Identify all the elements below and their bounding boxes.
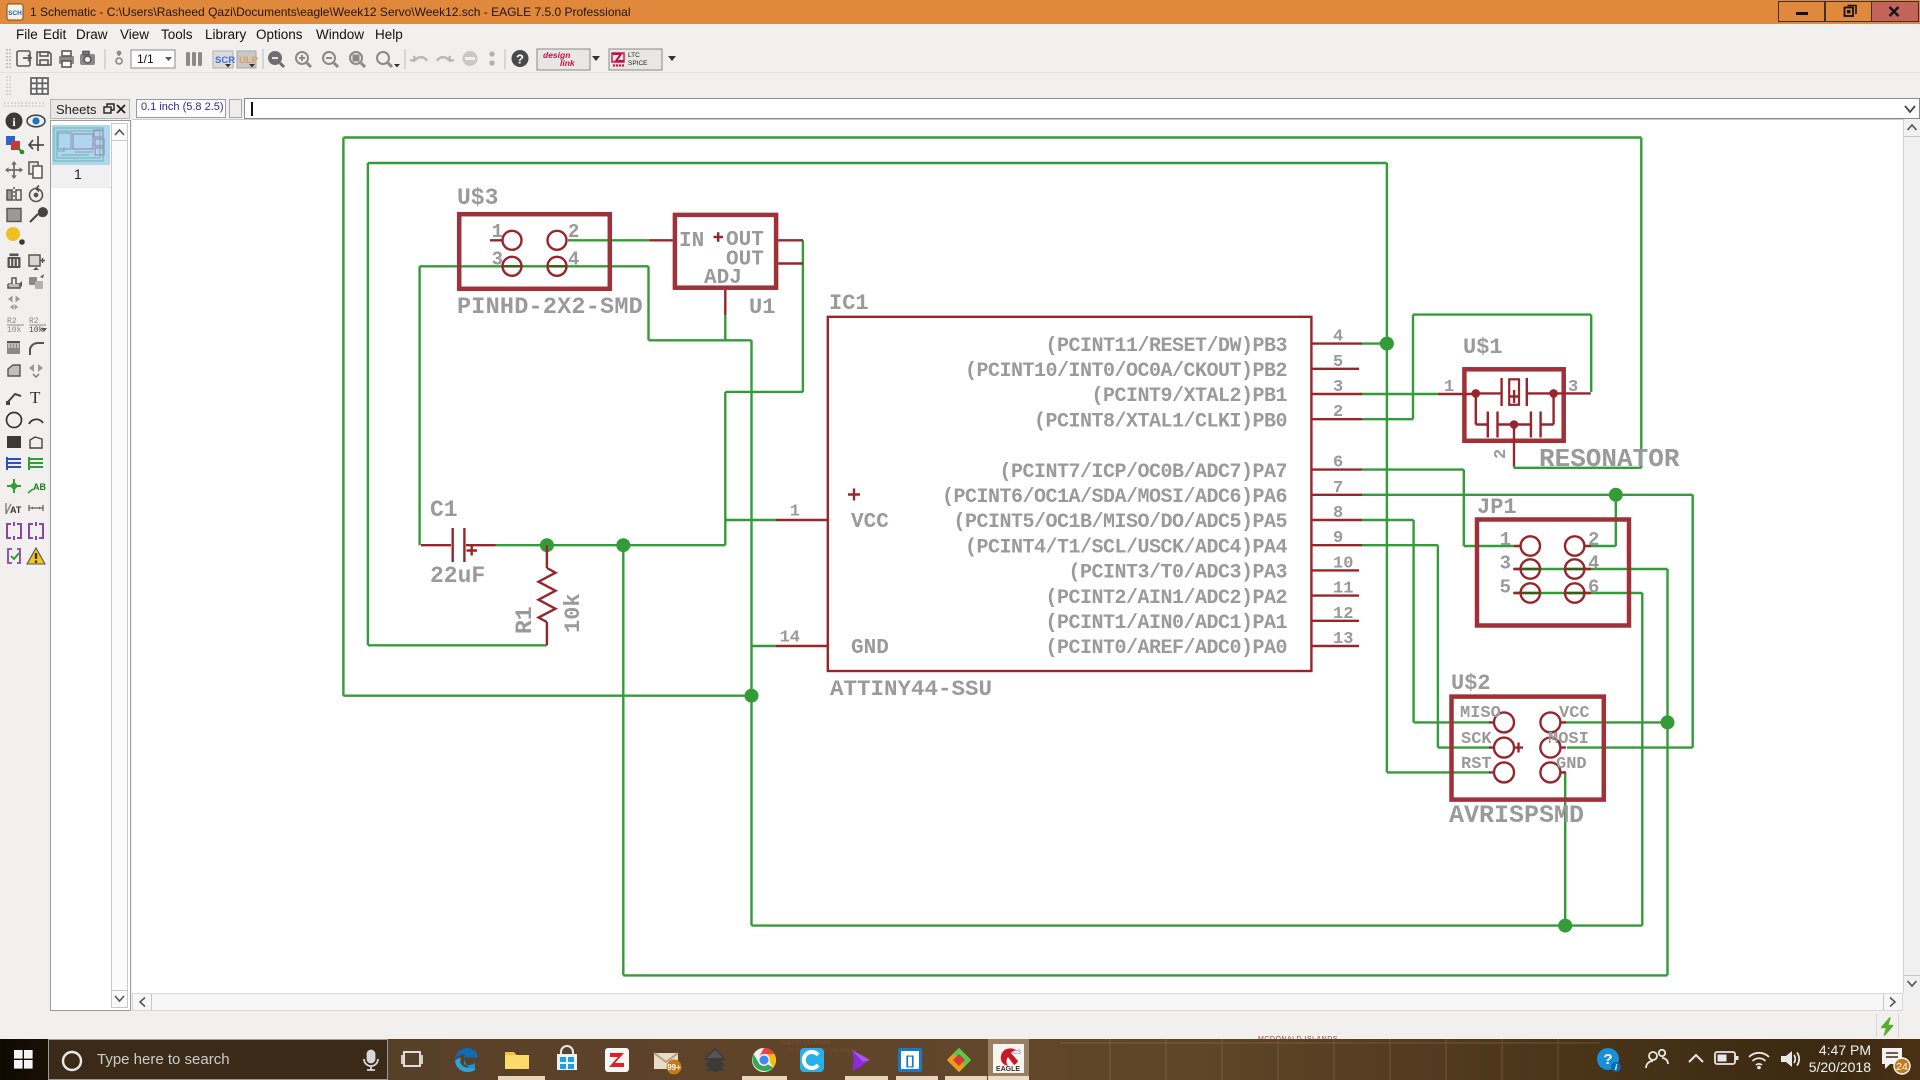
svg-text:13: 13	[1333, 630, 1353, 649]
svg-text:(PCINT1/AIN0/ADC1)PA1: (PCINT1/AIN0/ADC1)PA1	[1045, 612, 1287, 635]
faint map wallpaper artifacts	[1258, 1036, 1338, 1043]
svg-text:11: 11	[1333, 580, 1353, 599]
edge	[452, 1045, 482, 1075]
resonator internal capacitors	[1476, 393, 1554, 437]
store	[552, 1045, 582, 1075]
U1 IN label	[679, 230, 704, 253]
U$2 pad VCC	[1540, 712, 1560, 732]
wire GND outer frame right drop to resonator pin2	[1640, 138, 1642, 468]
wire U$2 GND drop	[1563, 772, 1565, 925]
JP1 pin number 3	[1500, 553, 1511, 575]
r4: rotate	[30, 186, 43, 202]
pin header U$3 box	[459, 214, 610, 289]
svg-text:U$2: U$2	[1451, 671, 1491, 696]
resistor R1 refdes rotated	[512, 606, 538, 634]
wire VCC vertical x725.3	[724, 392, 726, 545]
svg-text:3: 3	[492, 249, 503, 271]
svg-text:VCC: VCC	[1559, 704, 1590, 723]
U1 ADJ label	[704, 267, 742, 290]
r20: errors	[8, 549, 20, 563]
tray: help	[1594, 1045, 1624, 1075]
wire resonator pin2 to frame	[1514, 466, 1641, 468]
r2: layers	[6, 136, 24, 154]
svg-text:PINHD-2X2-SMD: PINHD-2X2-SMD	[457, 294, 643, 321]
start button	[0, 1039, 48, 1080]
U$2 GND label	[1556, 755, 1587, 774]
r3: move	[5, 161, 23, 179]
svg-text:14: 14	[780, 629, 800, 648]
JP1 pad 4	[1565, 559, 1584, 578]
wire inner frame bottom to R1	[368, 644, 547, 646]
resonator pin number 3	[1568, 378, 1578, 397]
svg-text:2: 2	[568, 221, 579, 243]
tray: people	[1643, 1046, 1671, 1074]
wire VCC to IC1 pin1	[725, 519, 776, 521]
eagle active app	[988, 1039, 1029, 1080]
resonator internal junction dots	[1472, 389, 1558, 429]
U$2 value AVRISPSMD	[1449, 801, 1584, 830]
U$2 pin stubs	[1489, 722, 1566, 772]
wire horizontal y340.3 ADJ net	[649, 339, 752, 341]
U1 OUT label bottom	[726, 249, 764, 272]
help	[512, 50, 529, 67]
IC1 pin labels PB	[965, 335, 1288, 434]
wire vertical x648.5	[647, 266, 649, 340]
resistor R1 zigzag	[539, 568, 556, 622]
stop	[463, 51, 478, 66]
svg-text:9: 9	[1333, 529, 1343, 548]
JP1 pin number 5	[1500, 577, 1511, 599]
r19: erc1	[7, 522, 21, 540]
chrome	[749, 1045, 779, 1075]
resonator U$1 box	[1464, 369, 1563, 441]
r15: polygon	[30, 437, 42, 448]
r16: bus	[7, 457, 21, 470]
svg-text:GND: GND	[1556, 755, 1587, 774]
wire GND bottom y925.6	[752, 924, 1643, 926]
svg-text:2: 2	[1333, 403, 1343, 422]
resonator refdes U$1	[1463, 335, 1503, 360]
undo / redo	[410, 56, 427, 61]
svg-text:RESONATOR: RESONATOR	[1539, 444, 1680, 474]
dots	[489, 51, 494, 56]
r17: junction	[7, 479, 21, 493]
svg-text:IN: IN	[679, 230, 704, 253]
svg-text:ATTINY44-SSU: ATTINY44-SSU	[830, 676, 992, 702]
wire U$2 VCC	[1563, 721, 1668, 723]
svg-text:R1: R1	[512, 606, 538, 634]
r14: circle	[7, 413, 22, 428]
resonator crystal symbol	[1476, 378, 1554, 406]
inkscape	[700, 1045, 730, 1075]
svg-text:4: 4	[1333, 328, 1343, 347]
tray: battery	[1713, 1048, 1741, 1072]
comet blue C	[797, 1045, 827, 1075]
r19: erc2	[29, 522, 43, 540]
r10: value	[29, 317, 47, 335]
zoom tools	[269, 49, 529, 69]
r7: add	[29, 255, 45, 270]
svg-text:(PCINT7/ICP/OC0B/ADC7)PA7: (PCINT7/ICP/OC0B/ADC7)PA7	[999, 461, 1287, 484]
svg-text:1: 1	[790, 503, 800, 522]
svg-text:(PCINT0/AREF/ADC0)PA0: (PCINT0/AREF/ADC0)PA0	[1045, 637, 1287, 660]
U$2 pad MISO	[1494, 712, 1514, 732]
wire U1 OUT vertical	[802, 240, 804, 392]
U1 OUT pin stubs	[778, 240, 803, 263]
IC1 plus mark above VCC	[848, 489, 860, 501]
ULP	[237, 51, 256, 68]
purple player	[846, 1045, 876, 1075]
resonator pin1 stub	[1438, 393, 1476, 395]
U$3 pin number 3	[492, 249, 503, 271]
U$3 pin stubs	[490, 239, 673, 241]
sep	[262, 49, 264, 69]
junction VCC-R1	[540, 538, 554, 552]
junction VCC-U$2	[1661, 715, 1675, 729]
affinity diamond	[944, 1045, 974, 1075]
tray: volume	[1777, 1048, 1805, 1072]
wire JP1 row3 pins5-6 GND	[1513, 593, 1642, 926]
U$3 pad 4	[548, 257, 567, 276]
IC1 GND pin label	[851, 637, 889, 660]
svg-text:2: 2	[1492, 449, 1511, 459]
columns	[186, 52, 202, 66]
r6: paint	[6, 227, 25, 245]
capacitor C1 refdes	[430, 497, 458, 523]
junction RESET pin4	[1380, 337, 1394, 351]
resonator pin2 stub	[1513, 425, 1515, 467]
U$2 SCK label	[1461, 730, 1492, 749]
svg-text:(PCINT3/T0/ADC3)PA3: (PCINT3/T0/ADC3)PA3	[1068, 562, 1287, 585]
JP1 pad 5	[1521, 583, 1540, 602]
r7: delete	[8, 254, 21, 269]
tray: wifi	[1745, 1048, 1773, 1072]
U$2 pad SCK	[1494, 738, 1514, 758]
U$2 RST label	[1461, 755, 1492, 774]
svg-text:4: 4	[568, 249, 579, 271]
r10: name	[7, 317, 24, 335]
svg-text:10: 10	[1333, 554, 1353, 573]
wire RESET vertical x1387 to U$2 RST	[1386, 163, 1388, 772]
svg-text:1: 1	[1444, 378, 1454, 397]
svg-text:(PCINT10/INT0/OC0A/CKOUT)PB2: (PCINT10/INT0/OC0A/CKOUT)PB2	[965, 360, 1287, 383]
svg-text:(PCINT4/T1/SCL/USCK/ADC4)PA4: (PCINT4/T1/SCL/USCK/ADC4)PA4	[965, 536, 1288, 559]
r4: mirror	[7, 187, 21, 203]
wire PA6 pin7 to U$2 MOSI and JP1 pin2	[1362, 495, 1693, 748]
JP1 pin number 1	[1500, 529, 1511, 551]
mail	[650, 1045, 684, 1075]
U1 ADJ pin stub	[724, 290, 726, 315]
IC1 right pin numbers	[1333, 328, 1353, 649]
wire GND outer frame top	[343, 136, 1641, 138]
U$2 VCC label	[1559, 704, 1590, 723]
JP1 pin number 6	[1588, 577, 1599, 599]
svg-text:ADJ: ADJ	[704, 267, 742, 290]
resonator pin number 1	[1444, 378, 1454, 397]
r17: label	[28, 482, 46, 493]
svg-text:(PCINT2/AIN1/ADC2)PA2: (PCINT2/AIN1/ADC2)PA2	[1045, 587, 1287, 610]
svg-text:U1: U1	[749, 295, 775, 320]
svg-text:12: 12	[1333, 605, 1353, 624]
camera	[80, 54, 95, 65]
svg-text:3: 3	[1568, 378, 1578, 397]
IC1 left pin stubs VCC GND	[776, 520, 828, 646]
1/1 dropdown	[131, 50, 175, 68]
wire U$3 pins 3-4 row	[420, 265, 649, 267]
svg-text:IC1: IC1	[829, 291, 869, 316]
r11: miter	[30, 343, 44, 355]
wire ADJ drop	[724, 314, 726, 340]
tray: chevron up	[1684, 1048, 1708, 1072]
scrollbar	[111, 123, 128, 1008]
U1 +OUT plus mark	[714, 232, 724, 241]
wire PB0 pin2 to resonator pin3	[1362, 315, 1591, 420]
open	[17, 51, 30, 66]
clock	[1805, 1042, 1871, 1076]
r11: cut	[7, 341, 20, 354]
JP1 pad 1	[1521, 536, 1540, 555]
wire PA4 pin9 to U$2 SCK	[1362, 545, 1491, 747]
IC1 pin labels PA	[942, 461, 1288, 660]
wire PA7 pin6 to JP1 pin1	[1362, 470, 1514, 546]
U1 OUT label top	[726, 229, 764, 252]
IC1 right pin stubs	[1311, 344, 1362, 646]
U$2 pad MOSI	[1540, 738, 1560, 758]
svg-text:MOSI: MOSI	[1548, 730, 1589, 749]
U$3 pin number 4	[568, 249, 579, 271]
SCR	[213, 51, 233, 68]
svg-text:C1: C1	[430, 497, 458, 523]
r5: group	[7, 209, 21, 222]
wire GND vertical x751.5	[750, 340, 752, 925]
U$3 refdes label	[457, 185, 498, 211]
junction MOSI-JP1	[1609, 488, 1623, 502]
wire overlap dark segments	[503, 266, 1584, 593]
svg-text:4: 4	[1588, 553, 1599, 575]
wire RST horizontal into U$2	[1387, 771, 1490, 773]
svg-text:MISO: MISO	[1460, 704, 1501, 723]
svg-text:22uF: 22uF	[430, 563, 485, 589]
notification	[1878, 1044, 1912, 1078]
U$2 MOSI label	[1548, 730, 1589, 749]
svg-text:1: 1	[492, 221, 503, 243]
wire VCC horizontal through C1 R1	[496, 544, 726, 546]
r3: copy	[29, 162, 42, 178]
r13: wire	[6, 394, 21, 405]
r8: smash	[29, 274, 44, 289]
r5: wrench	[30, 208, 47, 222]
wire GND to IC1 pin14	[752, 645, 777, 647]
capacitor C1 value 22uF	[430, 563, 485, 589]
sep	[104, 49, 106, 69]
save	[37, 52, 51, 65]
resonator pin number 2 rotated	[1492, 449, 1511, 459]
U$3 pad 2	[548, 231, 567, 250]
use icon	[116, 51, 122, 64]
design link button	[537, 49, 590, 70]
svg-text:JP1: JP1	[1477, 495, 1517, 520]
microcontroller IC1 box	[828, 317, 1312, 671]
JP1 refdes label	[1477, 495, 1517, 520]
svg-text:5: 5	[1500, 577, 1511, 599]
r16: net	[29, 457, 43, 470]
wire GND outer frame left	[342, 138, 344, 696]
U$3 value PINHD-2X2-SMD	[457, 294, 643, 321]
svg-text:8: 8	[1333, 504, 1343, 523]
U$2 pad GND	[1540, 762, 1560, 782]
pin header JP1 box	[1477, 520, 1629, 626]
zinio	[602, 1045, 632, 1075]
LTC SPICE button	[609, 49, 662, 70]
search box	[48, 1039, 388, 1080]
svg-text:(PCINT6/OC1A/SDA/MOSI/ADC6)PA6: (PCINT6/OC1A/SDA/MOSI/ADC6)PA6	[942, 486, 1287, 509]
r12: polygon slope	[8, 365, 20, 376]
U$2 MISO label	[1460, 704, 1501, 723]
U$2 refdes label	[1451, 671, 1491, 696]
svg-text:3: 3	[1500, 553, 1511, 575]
resistor R1 leads	[546, 545, 548, 645]
r1: info	[6, 113, 23, 130]
IC1 value ATTINY44-SSU	[830, 676, 992, 702]
IC1 pin number 1	[790, 503, 800, 522]
wire PA5 pin8 to U$2 MISO	[1362, 520, 1491, 722]
svg-text:1: 1	[1500, 529, 1511, 551]
svg-text:AVRISPSMD: AVRISPSMD	[1449, 801, 1584, 830]
r2: mark	[29, 136, 44, 151]
r15: rect	[7, 436, 21, 448]
junction GND-U$2	[1558, 919, 1572, 933]
wire RESET inner frame top	[368, 162, 1387, 164]
r13: text	[30, 388, 41, 407]
wire JP1 row2 pins3-4	[1513, 569, 1668, 975]
svg-text:3: 3	[1333, 378, 1343, 397]
svg-text:(PCINT8/XTAL1/CLKI)PB0: (PCINT8/XTAL1/CLKI)PB0	[1034, 410, 1287, 433]
resistor R1 value 10k rotated	[561, 593, 586, 633]
JP1 pad 2	[1565, 536, 1584, 555]
svg-text:7: 7	[1333, 479, 1343, 498]
r18: attribute	[6, 503, 22, 515]
JP1 pin number 2	[1588, 529, 1599, 551]
wire VCC vertical x623.3	[622, 545, 624, 975]
wire VCC bottom y975.4	[623, 974, 1667, 976]
window chrome	[0, 0, 1920, 24]
resonator pin3 stub	[1554, 392, 1591, 394]
wire node left vertical x419.6	[418, 266, 420, 545]
resonator value RESONATOR	[1539, 444, 1680, 474]
svg-text:10k: 10k	[561, 593, 586, 633]
wire GND outer frame bottom	[343, 695, 751, 697]
U1 refdes label	[749, 295, 775, 320]
wire PB1 pin3 to resonator pin1	[1362, 393, 1438, 395]
r9: pinswap	[8, 296, 20, 310]
IC1 refdes label	[829, 291, 869, 316]
task view	[399, 1047, 425, 1073]
svg-text:6: 6	[1588, 577, 1599, 599]
svg-text:(PCINT9/XTAL2)PB1: (PCINT9/XTAL2)PB1	[1091, 385, 1287, 408]
capacitor C1 plates	[453, 528, 465, 562]
wire inner frame left	[367, 163, 369, 645]
U$2 pad RST	[1494, 762, 1514, 782]
folder	[502, 1045, 532, 1075]
r20: warning	[27, 548, 45, 564]
U$3 pad 3	[503, 257, 522, 276]
JP1 pin stubs	[1514, 546, 1591, 593]
vs code brackets	[895, 1045, 925, 1075]
svg-text:GND: GND	[851, 637, 889, 660]
wire U$3 pin2 to U1 IN	[568, 239, 649, 241]
print	[59, 56, 74, 64]
wire VCC horizontal y391.9	[725, 391, 803, 393]
capacitor C1 leads	[421, 544, 496, 546]
thumbnail selected	[52, 125, 110, 165]
svg-text:5: 5	[1333, 353, 1343, 372]
capacitor C1 polarity plus	[467, 546, 478, 556]
svg-text:U$1: U$1	[1463, 335, 1503, 360]
svg-text:U$3: U$3	[457, 185, 498, 211]
JP1 pad 3	[1521, 559, 1540, 578]
r18: dimension	[29, 505, 43, 511]
JP1 pad 6	[1565, 583, 1584, 602]
wire PB3 pin4 to junction	[1362, 342, 1387, 344]
r12: split	[29, 364, 43, 377]
IC1 pin number 14	[780, 629, 800, 648]
r1: eye	[27, 115, 45, 127]
svg-text:(PCINT11/RESET/DW)PB3: (PCINT11/RESET/DW)PB3	[1045, 335, 1287, 358]
regulator U1 box	[675, 215, 776, 288]
junction VCC-x623	[616, 538, 630, 552]
JP1 pin number 4	[1588, 553, 1599, 575]
r8: replace	[8, 278, 22, 288]
svg-text:RST: RST	[1461, 755, 1492, 774]
r14: arc	[29, 419, 43, 424]
svg-text:2: 2	[1588, 529, 1599, 551]
open app underline indicators	[498, 1076, 545, 1080]
svg-text:(PCINT5/OC1B/MISO/DO/ADC5)PA5: (PCINT5/OC1B/MISO/DO/ADC5)PA5	[953, 511, 1287, 534]
IC1 VCC pin label	[851, 511, 889, 534]
U$3 pin number 1	[492, 221, 503, 243]
U$3 pin number 2	[568, 221, 579, 243]
U$3 pad 1	[503, 231, 522, 250]
junction GND frame	[745, 689, 759, 703]
svg-text:SCK: SCK	[1461, 730, 1492, 749]
svg-text:VCC: VCC	[851, 511, 889, 534]
svg-text:6: 6	[1333, 454, 1343, 473]
dotted handle	[7, 49, 10, 69]
programming header U$2 box	[1452, 697, 1604, 800]
